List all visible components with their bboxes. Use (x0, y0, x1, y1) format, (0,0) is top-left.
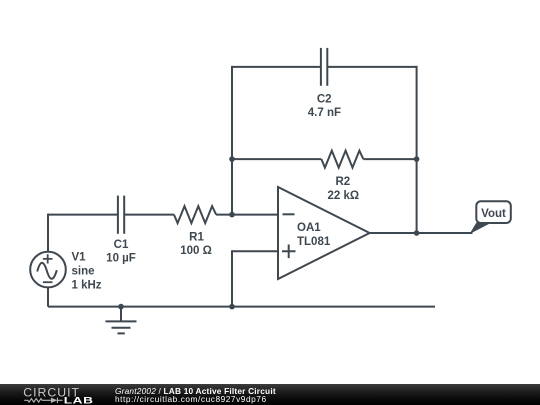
wire V1 top vertical (47, 214, 49, 252)
wire R1 to op-amp inverting input (216, 214, 278, 216)
node A feedback-R2 left junction (229, 156, 235, 162)
svg-text:C2: C2 (317, 93, 332, 105)
label V1 value (72, 251, 102, 291)
footer caption text (115, 387, 276, 404)
node B feedback-R2 right junction (414, 156, 420, 162)
wire ground rail (48, 306, 435, 308)
CircuitLab logo (23, 384, 115, 405)
svg-text:R1: R1 (189, 231, 204, 243)
capacitor C1 (118, 196, 124, 234)
wire V1 bottom vertical (47, 287, 49, 306)
svg-text:R2: R2 (335, 176, 350, 188)
ground (106, 307, 137, 334)
label C1 value (106, 239, 136, 265)
svg-text:22 kΩ: 22 kΩ (327, 190, 359, 202)
node F ground junction (118, 304, 124, 310)
footer bar (0, 384, 540, 405)
svg-text:1 kHz: 1 kHz (72, 280, 102, 292)
capacitor C2 (321, 48, 327, 86)
resistor R2 (321, 151, 363, 168)
resistor R1 (174, 206, 216, 223)
label C2 value (308, 93, 341, 118)
svg-text:V1: V1 (72, 251, 87, 263)
svg-text:C1: C1 (114, 239, 129, 251)
label R1 value (180, 231, 212, 257)
wire top feedback horizontal left of C2 (232, 66, 321, 68)
wire output (370, 232, 473, 234)
svg-text:4.7 nF: 4.7 nF (308, 107, 341, 119)
svg-text:sine: sine (72, 265, 95, 277)
node D rail junction (229, 304, 235, 310)
wire non-inverting input vertical drop (231, 250, 233, 306)
svg-text:LAB: LAB (64, 396, 94, 405)
wire left feedback vertical (231, 66, 233, 215)
label R2 value (327, 176, 359, 202)
svg-text:10 µF: 10 µF (106, 253, 136, 265)
node E output junction (414, 230, 420, 236)
wire R2 right lead (363, 158, 416, 160)
svg-text:100 Ω: 100 Ω (180, 245, 212, 257)
wire V1 to C1 (48, 214, 118, 216)
wire R2 left lead (232, 158, 321, 160)
svg-text:Vout: Vout (481, 208, 506, 220)
source V1 (30, 252, 66, 288)
svg-text:OA1: OA1 (297, 222, 321, 234)
wire C1 to R1 (124, 214, 174, 216)
node Vout flag (470, 201, 511, 234)
node C input junction (229, 212, 235, 218)
op-amp OA1 (278, 187, 370, 279)
wire right feedback vertical (416, 66, 418, 233)
wire top feedback horizontal right of C2 (327, 66, 416, 68)
svg-text:TL081: TL081 (297, 236, 331, 248)
wire non-inverting input (232, 250, 278, 252)
